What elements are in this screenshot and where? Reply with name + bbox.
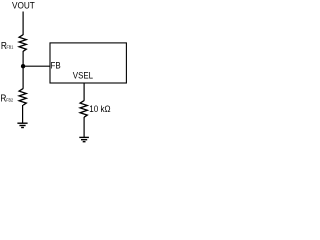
svg-text:FB1: FB1 <box>7 45 14 50</box>
wire junction to FB pin <box>23 65 50 67</box>
wire junction to R_FB2 top <box>22 66 24 89</box>
svg-text:VSEL: VSEL <box>73 71 93 81</box>
node junction dot <box>21 64 25 68</box>
svg-text:FB: FB <box>51 60 61 70</box>
background <box>0 0 130 143</box>
ground (right) <box>79 137 89 141</box>
ground (left) <box>17 123 27 127</box>
wire R3 bottom to ground <box>83 117 85 137</box>
svg-text:VOUT: VOUT <box>12 0 35 10</box>
wire VOUT to R_FB1 top <box>22 12 24 36</box>
resistor R3 10k <box>80 101 87 118</box>
resistor R_FB2 <box>19 89 26 106</box>
svg-text:10 kΩ: 10 kΩ <box>89 104 111 114</box>
op IC U1 box <box>50 43 126 83</box>
wire VSEL pin to R3 top <box>83 83 85 101</box>
wire R_FB1 bottom to junction <box>22 51 24 66</box>
wire R_FB2 bottom to ground <box>22 105 24 123</box>
svg-text:FB2: FB2 <box>6 97 13 102</box>
resistor R_FB1 <box>19 35 26 52</box>
